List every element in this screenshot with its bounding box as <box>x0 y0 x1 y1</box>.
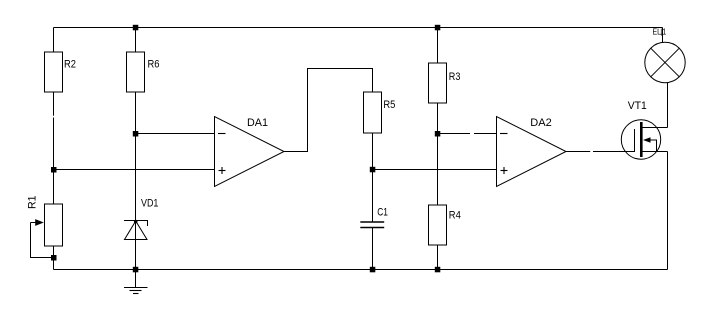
R1 wiper arrow <box>31 222 38 224</box>
wire DA2 output to VT1 gate <box>566 151 635 153</box>
resistor R2 <box>45 52 63 92</box>
transistor VT1 <box>621 120 660 159</box>
svg-text:VT1: VT1 <box>628 100 647 112</box>
wire node to DA2 non-inverting input <box>373 169 497 171</box>
potentiometer R1 <box>45 204 63 246</box>
wire gap artifact left column <box>52 116 55 118</box>
junction top rail at R3 <box>435 25 441 31</box>
wire R6 bottom to VD1 <box>135 92 137 270</box>
ground <box>135 270 137 288</box>
wire R1 wiper bracket <box>31 223 54 258</box>
svg-text:DA1: DA1 <box>247 117 268 129</box>
wire top rail <box>54 27 663 29</box>
wire bottom rail <box>54 269 668 271</box>
svg-text:ЕЦ1: ЕЦ1 <box>653 26 667 36</box>
junction bottom rail at R4 <box>435 267 441 273</box>
resistor R3 <box>429 63 447 103</box>
wire node to DA1 inverting input <box>136 133 215 135</box>
capacitor C1 <box>360 221 384 223</box>
resistor R5 <box>364 92 382 133</box>
DA1 plus sign <box>219 170 226 172</box>
wire VT1 source to bottom rail <box>667 152 669 270</box>
junction R6 bottom node <box>133 131 139 137</box>
wire R3 bottom to R4 top <box>437 103 439 205</box>
junction R3-R4 node <box>435 131 441 137</box>
DA1 minus sign <box>218 133 226 135</box>
junction R1 bottom <box>51 255 57 261</box>
zener diode VD1 <box>124 221 148 227</box>
resistor R4 <box>429 205 447 245</box>
svg-text:R5: R5 <box>383 99 395 111</box>
junction left column mid-rail <box>51 167 57 173</box>
junction top rail at R6 <box>133 25 139 31</box>
wire left column upper (top rail to R2) <box>53 28 55 53</box>
svg-text:R4: R4 <box>449 210 461 222</box>
wire R4 bottom to bottom rail <box>437 245 439 270</box>
wire R5 bottom to C1 <box>372 133 374 222</box>
svg-text:R6: R6 <box>148 59 160 71</box>
resistor R6 <box>127 52 145 92</box>
svg-text:DA2: DA2 <box>530 117 552 129</box>
svg-text:VD1: VD1 <box>141 197 158 209</box>
DA2 minus sign <box>500 133 508 135</box>
junction bottom rail at ground <box>133 267 139 273</box>
wire DA1 output to R5 top <box>284 69 373 152</box>
wire R1 bottom to bottom rail <box>53 246 55 270</box>
wire top rail to lamp top <box>662 28 664 44</box>
wire gap artifact DA2 inverting input wire <box>470 133 474 135</box>
wire mid rail to DA1 non-inverting input <box>54 169 215 171</box>
junction bottom rail at C1 <box>370 267 376 273</box>
lamp EC1 <box>645 42 685 82</box>
op-amp DA1 <box>215 117 285 187</box>
DA2 plus sign <box>501 170 508 172</box>
svg-text:C1: C1 <box>377 207 388 219</box>
wire R2 bottom to R1 top <box>53 92 55 204</box>
wire gap artifact DA2 output wire <box>590 151 593 153</box>
junction R5 bottom node <box>370 167 376 173</box>
wire top rail to R6 <box>135 28 137 53</box>
svg-text:R1: R1 <box>27 196 39 210</box>
wire VT1 drain to lamp <box>667 83 669 128</box>
wire C1 bottom to bottom rail <box>372 228 374 270</box>
op-amp DA2 <box>497 117 567 187</box>
svg-text:R3: R3 <box>449 71 461 83</box>
svg-text:R2: R2 <box>64 59 76 71</box>
wire node to DA2 inverting input <box>438 133 497 135</box>
wire top rail to R3 <box>437 28 439 64</box>
